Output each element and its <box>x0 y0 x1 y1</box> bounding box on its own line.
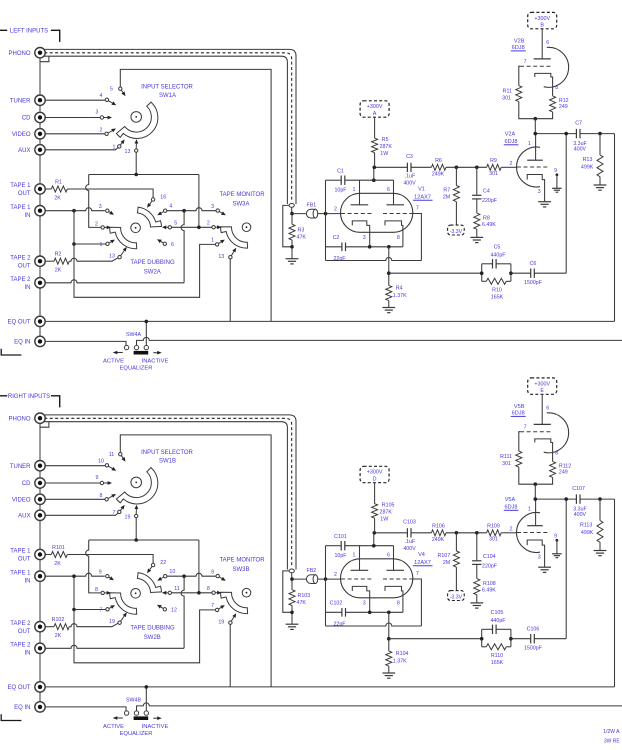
svg-text:TAPE 2: TAPE 2 <box>10 621 31 627</box>
svg-text:2: 2 <box>207 221 210 227</box>
svg-text:TAPE DUBBING: TAPE DUBBING <box>130 260 175 266</box>
svg-text:TAPE MONITOR: TAPE MONITOR <box>219 192 265 198</box>
svg-text:C1: C1 <box>337 168 344 174</box>
svg-text:499K: 499K <box>581 164 594 170</box>
svg-text:TAPE 1: TAPE 1 <box>10 205 31 211</box>
svg-text:1/2W A: 1/2W A <box>603 729 620 735</box>
svg-text:6DJ8: 6DJ8 <box>512 45 525 51</box>
svg-text:400V: 400V <box>403 181 416 187</box>
svg-text:R7: R7 <box>443 188 450 194</box>
svg-text:1.37K: 1.37K <box>393 293 407 299</box>
svg-text:8: 8 <box>555 85 558 91</box>
svg-text:R103: R103 <box>298 593 311 599</box>
svg-text:47K: 47K <box>297 600 307 606</box>
svg-text:IN: IN <box>25 213 31 219</box>
svg-text:301: 301 <box>489 537 498 543</box>
svg-text:TUNER: TUNER <box>10 464 31 470</box>
svg-text:TAPE 1: TAPE 1 <box>10 183 31 189</box>
svg-text:-3.3V: -3.3V <box>450 229 463 235</box>
svg-text:FB2: FB2 <box>307 568 317 574</box>
svg-text:+300V: +300V <box>534 16 550 22</box>
svg-text:47K: 47K <box>297 235 307 241</box>
svg-text:7: 7 <box>524 425 527 431</box>
svg-text:TAPE 1: TAPE 1 <box>10 570 31 576</box>
svg-text:19: 19 <box>125 514 131 520</box>
svg-text:12AX7: 12AX7 <box>414 560 431 566</box>
svg-text:4: 4 <box>169 204 172 210</box>
svg-text:8: 8 <box>100 493 103 499</box>
svg-text:301: 301 <box>502 96 511 102</box>
svg-text:SW3B: SW3B <box>232 567 249 573</box>
svg-text:249: 249 <box>559 104 568 110</box>
svg-text:OUT: OUT <box>18 557 31 563</box>
svg-text:+300V: +300V <box>367 104 383 110</box>
svg-text:TAPE 2: TAPE 2 <box>10 277 31 283</box>
svg-text:1: 1 <box>100 242 103 248</box>
svg-text:R1: R1 <box>55 179 62 185</box>
svg-text:V2B: V2B <box>514 38 525 44</box>
svg-text:11: 11 <box>109 452 115 458</box>
svg-text:TUNER: TUNER <box>10 98 31 104</box>
svg-text:C105: C105 <box>491 610 504 616</box>
svg-text:R8: R8 <box>483 215 490 221</box>
svg-text:165K: 165K <box>491 660 504 666</box>
svg-text:OUT: OUT <box>18 629 31 635</box>
svg-text:C106: C106 <box>527 626 540 632</box>
svg-text:D: D <box>373 477 377 483</box>
svg-text:INACTIVE: INACTIVE <box>142 358 169 364</box>
svg-text:2K: 2K <box>54 561 61 567</box>
svg-text:249: 249 <box>559 469 568 475</box>
svg-text:3: 3 <box>99 204 102 210</box>
svg-text:TAPE MONITOR: TAPE MONITOR <box>219 557 265 563</box>
svg-text:22pF: 22pF <box>333 256 346 262</box>
svg-text:R6: R6 <box>435 158 442 164</box>
svg-text:5: 5 <box>110 87 113 93</box>
svg-text:AUX: AUX <box>18 148 30 154</box>
svg-text:PHONO: PHONO <box>8 416 30 422</box>
svg-text:2: 2 <box>334 572 337 578</box>
svg-text:C5: C5 <box>494 245 501 251</box>
svg-text:10pF: 10pF <box>334 188 347 194</box>
svg-text:R113: R113 <box>580 523 592 529</box>
svg-text:7: 7 <box>100 607 103 613</box>
svg-text:R109: R109 <box>487 524 500 530</box>
svg-text:6.49K: 6.49K <box>482 222 496 228</box>
svg-text:R11: R11 <box>503 89 512 95</box>
svg-text:OUT: OUT <box>18 263 31 269</box>
svg-text:400V: 400V <box>574 147 587 153</box>
svg-text:V2A: V2A <box>505 132 516 138</box>
svg-text:1W: 1W <box>380 151 388 157</box>
svg-text:VIDEO: VIDEO <box>12 497 31 503</box>
svg-text:IN: IN <box>25 578 31 584</box>
svg-text:19: 19 <box>109 619 115 625</box>
svg-text:C104: C104 <box>483 554 496 560</box>
svg-text:VIDEO: VIDEO <box>12 132 31 138</box>
svg-text:ACTIVE: ACTIVE <box>103 358 124 364</box>
svg-text:12: 12 <box>171 607 177 613</box>
svg-text:301: 301 <box>489 171 498 177</box>
svg-text:165K: 165K <box>491 295 504 301</box>
svg-text:R2: R2 <box>55 252 62 258</box>
svg-text:8: 8 <box>397 601 400 607</box>
svg-text:287K: 287K <box>380 510 393 516</box>
svg-text:R107: R107 <box>438 553 451 559</box>
svg-text:SW2A: SW2A <box>144 270 161 276</box>
svg-text:1: 1 <box>353 187 356 193</box>
svg-text:3: 3 <box>538 555 541 561</box>
svg-text:R108: R108 <box>483 581 496 587</box>
svg-text:C3: C3 <box>406 154 413 160</box>
svg-text:E: E <box>540 388 544 394</box>
svg-text:C103: C103 <box>403 520 416 526</box>
svg-text:R106: R106 <box>432 524 445 530</box>
svg-text:440pF: 440pF <box>490 618 506 624</box>
svg-text:EQ IN: EQ IN <box>14 340 30 346</box>
svg-text:7: 7 <box>524 59 527 65</box>
svg-text:13: 13 <box>218 254 224 260</box>
svg-text:1: 1 <box>528 507 531 513</box>
svg-text:3: 3 <box>538 189 541 195</box>
svg-text:9: 9 <box>96 475 99 481</box>
svg-text:440pF: 440pF <box>490 252 506 258</box>
svg-text:249K: 249K <box>432 537 445 543</box>
svg-text:13: 13 <box>125 149 131 155</box>
svg-text:6: 6 <box>546 406 549 412</box>
svg-text:3W RE: 3W RE <box>604 739 621 745</box>
svg-text:1: 1 <box>113 144 116 150</box>
svg-text:7: 7 <box>113 510 116 516</box>
svg-text:22: 22 <box>160 560 166 566</box>
svg-text:TAPE DUBBING: TAPE DUBBING <box>130 625 175 631</box>
svg-text:R3: R3 <box>298 228 305 234</box>
svg-text:R110: R110 <box>491 653 503 659</box>
svg-text:C107: C107 <box>572 486 585 492</box>
svg-text:SW1A: SW1A <box>159 93 176 99</box>
svg-text:2: 2 <box>510 526 513 532</box>
svg-text:6DJ8: 6DJ8 <box>504 139 517 145</box>
svg-text:A: A <box>373 111 377 117</box>
svg-text:TAPE 2: TAPE 2 <box>10 255 31 261</box>
svg-text:400V: 400V <box>403 546 416 552</box>
svg-text:6.49K: 6.49K <box>482 588 496 594</box>
svg-text:7: 7 <box>416 571 419 577</box>
svg-text:IN: IN <box>25 650 31 656</box>
svg-text:INPUT SELECTOR: INPUT SELECTOR <box>141 450 193 456</box>
svg-text:R104: R104 <box>396 651 409 657</box>
svg-text:499K: 499K <box>581 530 594 536</box>
svg-text:C101: C101 <box>334 534 347 540</box>
svg-text:EQ IN: EQ IN <box>14 705 30 711</box>
svg-text:1500pF: 1500pF <box>524 280 543 286</box>
svg-text:2: 2 <box>100 128 103 134</box>
svg-text:220pF: 220pF <box>482 564 498 570</box>
svg-text:.1uF: .1uF <box>405 539 416 545</box>
svg-text:R105: R105 <box>382 503 395 509</box>
svg-text:EQ OUT: EQ OUT <box>7 685 30 691</box>
svg-text:CD: CD <box>22 481 31 487</box>
svg-text:2K: 2K <box>55 633 62 639</box>
svg-text:22pF: 22pF <box>333 621 346 627</box>
svg-text:13: 13 <box>109 254 115 260</box>
svg-text:TAPE 1: TAPE 1 <box>10 549 31 555</box>
svg-text:ACTIVE: ACTIVE <box>103 724 124 730</box>
svg-text:RIGHT INPUTS: RIGHT INPUTS <box>8 394 50 400</box>
svg-text:3: 3 <box>363 235 366 241</box>
svg-text:8: 8 <box>555 451 558 457</box>
svg-text:3: 3 <box>363 601 366 607</box>
svg-text:301: 301 <box>502 461 511 467</box>
svg-text:4: 4 <box>100 93 103 99</box>
svg-text:6: 6 <box>387 187 390 193</box>
svg-text:7: 7 <box>416 206 419 212</box>
svg-text:249K: 249K <box>432 172 445 178</box>
svg-text:B: B <box>540 23 544 29</box>
svg-text:V5A: V5A <box>505 497 516 503</box>
svg-text:8: 8 <box>95 587 98 593</box>
svg-text:1: 1 <box>353 553 356 559</box>
svg-text:10: 10 <box>169 569 175 575</box>
svg-text:2: 2 <box>510 161 513 167</box>
svg-text:.1uF: .1uF <box>405 174 416 180</box>
svg-text:6DJ8: 6DJ8 <box>512 411 525 417</box>
svg-text:2: 2 <box>334 207 337 213</box>
svg-text:9: 9 <box>211 570 214 576</box>
svg-text:SW4B: SW4B <box>126 698 141 704</box>
svg-text:R101: R101 <box>52 545 65 551</box>
svg-text:V5B: V5B <box>514 404 525 410</box>
svg-text:1.37K: 1.37K <box>393 659 407 665</box>
svg-text:R5: R5 <box>382 137 389 143</box>
svg-text:C7: C7 <box>575 120 582 126</box>
svg-text:INACTIVE: INACTIVE <box>142 724 169 730</box>
svg-text:EQUALIZER: EQUALIZER <box>120 366 153 372</box>
svg-text:SW4A: SW4A <box>126 332 141 338</box>
svg-text:1W: 1W <box>380 516 388 522</box>
svg-text:-3.3V: -3.3V <box>450 595 463 601</box>
svg-text:+300V: +300V <box>367 470 383 476</box>
svg-text:6DJ8: 6DJ8 <box>504 505 517 511</box>
svg-text:OUT: OUT <box>18 191 31 197</box>
svg-text:6: 6 <box>387 553 390 559</box>
svg-text:8: 8 <box>397 235 400 241</box>
svg-text:2M: 2M <box>443 194 450 200</box>
svg-text:2K: 2K <box>54 196 61 202</box>
svg-text:IN: IN <box>25 285 31 291</box>
svg-text:AUX: AUX <box>18 513 30 519</box>
svg-text:19: 19 <box>218 620 224 626</box>
svg-text:2: 2 <box>95 221 98 227</box>
svg-text:2K: 2K <box>55 267 62 273</box>
svg-text:9: 9 <box>99 570 102 576</box>
svg-text:12AX7: 12AX7 <box>414 194 431 200</box>
svg-text:11: 11 <box>174 586 180 592</box>
svg-text:CD: CD <box>22 116 31 122</box>
svg-text:9: 9 <box>554 168 557 174</box>
svg-text:SW2B: SW2B <box>144 635 161 641</box>
svg-text:5: 5 <box>174 221 177 227</box>
svg-text:220pF: 220pF <box>482 198 498 204</box>
svg-text:1500pF: 1500pF <box>524 646 543 652</box>
svg-text:1: 1 <box>528 141 531 147</box>
svg-text:10: 10 <box>98 459 104 465</box>
svg-text:PHONO: PHONO <box>8 51 30 57</box>
svg-text:C2: C2 <box>333 235 340 241</box>
svg-text:2M: 2M <box>443 560 450 566</box>
svg-text:EQ OUT: EQ OUT <box>7 320 30 326</box>
svg-text:C102: C102 <box>330 600 343 606</box>
svg-text:FB1: FB1 <box>307 203 317 209</box>
svg-text:+300V: +300V <box>534 381 550 387</box>
svg-text:10pF: 10pF <box>334 553 347 559</box>
svg-text:9: 9 <box>554 533 557 539</box>
svg-text:SW1B: SW1B <box>159 459 176 465</box>
svg-text:8: 8 <box>207 586 210 592</box>
svg-text:C4: C4 <box>483 188 490 194</box>
svg-text:R9: R9 <box>490 158 497 164</box>
svg-text:V4: V4 <box>418 552 425 558</box>
svg-text:INPUT SELECTOR: INPUT SELECTOR <box>141 84 193 90</box>
svg-text:R10: R10 <box>492 287 502 293</box>
svg-text:LEFT INPUTS: LEFT INPUTS <box>10 28 48 34</box>
svg-text:V1: V1 <box>418 187 425 193</box>
svg-text:TAPE 2: TAPE 2 <box>10 642 31 648</box>
svg-text:400V: 400V <box>574 512 587 518</box>
svg-text:7: 7 <box>211 603 214 609</box>
svg-text:C6: C6 <box>530 261 537 267</box>
svg-text:R4: R4 <box>396 286 403 292</box>
svg-text:R13: R13 <box>583 157 593 163</box>
svg-text:EQUALIZER: EQUALIZER <box>120 731 153 737</box>
svg-text:6: 6 <box>546 40 549 46</box>
svg-text:R111: R111 <box>500 454 512 460</box>
svg-text:6: 6 <box>171 242 174 248</box>
svg-text:R102: R102 <box>52 617 65 623</box>
svg-text:SW3A: SW3A <box>232 202 249 208</box>
svg-text:3: 3 <box>211 204 214 210</box>
svg-text:287K: 287K <box>380 144 393 150</box>
svg-text:3: 3 <box>96 110 99 116</box>
svg-text:1: 1 <box>211 238 214 244</box>
svg-text:16: 16 <box>160 195 166 201</box>
